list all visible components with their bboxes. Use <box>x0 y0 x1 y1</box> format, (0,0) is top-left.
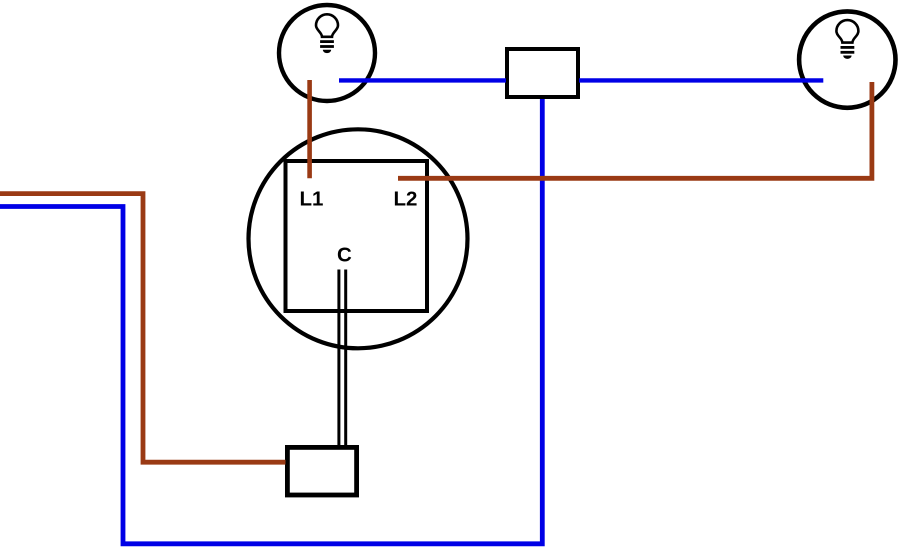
svg-text:L1: L1 <box>300 188 324 211</box>
svg-text:L2: L2 <box>394 188 418 211</box>
svg-text:C: C <box>337 243 352 266</box>
